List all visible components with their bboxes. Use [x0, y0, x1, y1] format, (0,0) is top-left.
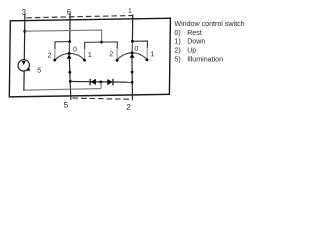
pin 1 lead [131, 14, 133, 41]
svg-text:1: 1 [128, 8, 132, 15]
wire: S1 wiper stem to pin 5 [69, 58, 72, 100]
svg-text:6: 6 [67, 8, 71, 17]
node: pin3 wire junction [23, 30, 26, 33]
node: S2 arc left dot [116, 59, 119, 62]
wire: switch1 contact1 lower part [83, 49, 85, 60]
svg-text:0): 0) [174, 29, 180, 37]
diode D1 bar [89, 79, 91, 86]
lamp edge dot [27, 68, 30, 71]
svg-text:Window control switch: Window control switch [174, 20, 244, 28]
svg-text:Down: Down [187, 38, 205, 46]
component box [9, 18, 170, 97]
diode D2 bar [112, 79, 114, 86]
node: pin6 bar junction [68, 40, 71, 43]
node: S2 arc peak dot [131, 51, 134, 54]
svg-text:1: 1 [150, 51, 154, 58]
lamp circle [18, 60, 30, 72]
node: pin1 bar junction [131, 40, 134, 43]
wire: switch2 contact2 lower part [116, 49, 118, 61]
svg-text:Illumination: Illumination [187, 56, 223, 64]
node: S2 arc right dot [146, 58, 149, 61]
wire: switch1 contact2 lower part [54, 49, 56, 60]
node: stem2 upper dot [131, 71, 134, 74]
svg-text:0: 0 [134, 46, 138, 53]
switch S2 centre contact [131, 41, 133, 52]
svg-text:Up: Up [187, 47, 196, 55]
svg-text:2: 2 [109, 51, 113, 58]
node: stem1 upper dot [68, 71, 71, 74]
wire: pin3 net horizontal [25, 30, 102, 43]
lamp arrow [22, 61, 26, 65]
switch S2 arc [117, 53, 147, 61]
diode D2 triangle (points right) [107, 79, 112, 85]
svg-text:2: 2 [47, 53, 51, 60]
pin 3 lead [23, 13, 26, 59]
switch S2 wiper arrow [130, 54, 135, 58]
wire: lamp bottom lead [23, 70, 25, 91]
switch S1 arc [55, 53, 85, 60]
dashed connector line top [26, 16, 132, 18]
wire: S2 wiper stem to pin 2 [131, 57, 133, 100]
node: stem2 bus dot [131, 81, 134, 84]
svg-text:3: 3 [22, 8, 26, 17]
svg-text:5: 5 [37, 67, 41, 74]
svg-text:0: 0 [73, 47, 77, 54]
wire: diode junction down to lamp rail [100, 82, 102, 89]
switch S2 top bar from pin 1 [132, 41, 147, 48]
node: stem1 bus dot [69, 80, 72, 83]
node: S1 arc right dot [83, 59, 86, 62]
wire: lamp rail [24, 89, 101, 91]
svg-text:5): 5) [174, 56, 180, 64]
switch S1 top bar from pin 6 [55, 42, 70, 50]
wire: bar to switch1 contact 1 [85, 42, 102, 49]
svg-text:2: 2 [126, 103, 131, 112]
dashed connector line bottom [73, 98, 133, 99]
svg-text:Rest: Rest [187, 29, 202, 37]
wire: switch2 contact1 lower part [146, 48, 148, 59]
node: S1 arc peak dot [68, 52, 71, 55]
svg-text:1: 1 [88, 52, 92, 59]
node: pin3 net mid junction [100, 41, 103, 44]
node: S1 arc left dot [53, 59, 56, 62]
svg-text:2): 2) [174, 47, 180, 55]
node: diode centre junction [99, 81, 102, 84]
switch S1 centre contact [68, 42, 70, 54]
wire: bar to switch2 contact 2 [101, 42, 117, 49]
svg-text:5: 5 [64, 101, 69, 110]
switch S1 wiper arrow [67, 54, 72, 58]
diode D1 triangle (points left) [90, 79, 96, 85]
wire: diode bus [70, 80, 132, 83]
schematic group (scan skew) [9, 5, 170, 113]
pin 6 lead [69, 13, 71, 42]
svg-text:1): 1) [174, 38, 180, 46]
